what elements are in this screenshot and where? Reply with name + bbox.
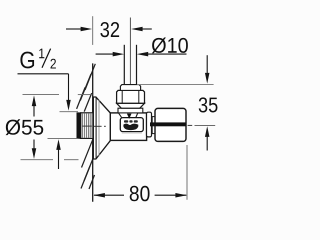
- flow arrow: [127, 114, 132, 119]
- axis centerline left dashes: [94, 125, 102, 127]
- dim O55 top up arrow: [32, 95, 37, 106]
- dim 35 down arrow: [206, 55, 208, 73]
- compression taper: [117, 103, 145, 108]
- G12 leader drop: [68, 74, 70, 101]
- tail top ext line: [60, 111, 79, 113]
- label G: [20, 52, 34, 69]
- funnel V edge left: [119, 113, 123, 119]
- dim 80 right arrow: [175, 193, 187, 198]
- funnel V edge right: [135, 113, 137, 119]
- dim O55 bottom down arrow: [33, 140, 35, 150]
- wall hatch lower: [81, 140, 96, 189]
- dim 32 right arrow: [131, 27, 143, 32]
- label 2: [51, 59, 56, 69]
- wall hatch upper: [77, 64, 96, 112]
- dim 80 text: [130, 186, 150, 202]
- tail thread stripes: [82, 114, 90, 138]
- handle groove band: [150, 122, 186, 126]
- riser pipe wall left: [123, 45, 125, 85]
- flange inner faint line: [98, 100, 100, 157]
- dim O55 bottom ext line: [21, 159, 54, 161]
- dim O10 right arrow and shelf: [137, 52, 149, 57]
- flange rosette: [93, 97, 110, 159]
- G12 down arrow: [66, 100, 71, 111]
- fraction slash: [42, 49, 51, 68]
- dim 35 top ext line: [137, 84, 214, 86]
- body top edge gap: [119, 112, 138, 115]
- G12 leader shelf: [18, 73, 69, 75]
- dim 32 text: [100, 22, 119, 37]
- tail thread end bar: [77, 113, 81, 139]
- body window: [120, 118, 143, 132]
- dim 80 line right: [155, 194, 187, 196]
- dim 80 left arrow: [93, 193, 105, 198]
- dim 35 bottom ext centerline: [195, 124, 216, 126]
- valve body: [110, 113, 146, 140]
- dim O55 text: [6, 119, 44, 135]
- compression nut: [117, 90, 145, 103]
- tail centerline dash: [82, 125, 92, 127]
- stem: [152, 117, 155, 134]
- dim 80 line left: [94, 194, 124, 196]
- bonnet ring: [147, 112, 152, 137]
- G12 bottom up arrow: [56, 139, 61, 150]
- dim 35 text: [199, 97, 218, 112]
- thread tail in wall: [81, 113, 93, 139]
- GROHE wordmark dashes: [124, 120, 128, 122]
- label 1: [39, 49, 44, 59]
- tail right shade band: [90, 113, 92, 138]
- dim 80 right ext line: [186, 145, 188, 200]
- axis centerline right dash: [188, 124, 193, 126]
- flange face line: [95, 97, 97, 158]
- dim O10 left arrow: [96, 53, 114, 55]
- dim 32 left ext line: [92, 16, 94, 45]
- dim 32 left arrow: [66, 28, 82, 30]
- upper collar: [120, 85, 140, 91]
- wall face line: [92, 63, 94, 201]
- GROHE wave symbol: [123, 124, 138, 131]
- dim 35 up arrow: [205, 126, 210, 137]
- nut hex face lines: [121, 91, 123, 104]
- riser pipe wall right: [136, 45, 138, 85]
- pipe centerline ext of 32: [129, 18, 131, 85]
- window lower lip: [122, 132, 142, 133]
- handle: [155, 108, 186, 141]
- fitting collar above body: [118, 108, 143, 113]
- dim O10 text: [152, 37, 188, 53]
- dim O55 top ext line: [23, 94, 60, 96]
- tail bottom ext line: [48, 137, 79, 139]
